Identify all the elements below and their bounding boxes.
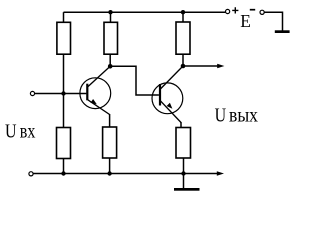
terminal E minus xyxy=(260,10,264,14)
svg-text:U: U xyxy=(5,121,17,143)
node V2 collector xyxy=(181,64,186,69)
wire column A: R1 to input node to R2 xyxy=(63,54,65,128)
ground bottom xyxy=(174,188,200,191)
wire column B: rail to R3 xyxy=(110,12,112,22)
node bottom rail/R2 xyxy=(61,171,65,175)
ground stub bottom xyxy=(183,174,185,189)
node bottom rail/R4 xyxy=(107,171,111,175)
transistor V2 xyxy=(152,66,183,123)
wire V1 emitter down to R4 xyxy=(109,114,111,127)
terminal E plus xyxy=(226,9,230,13)
resistor R2 xyxy=(57,128,71,159)
wire V2 emitter down to R6 xyxy=(180,122,182,128)
node V1 collector xyxy=(108,64,113,69)
wire input terminal to base of V1 xyxy=(35,93,87,95)
resistor R4 xyxy=(103,127,117,158)
node input/divider xyxy=(61,91,65,95)
output arrow top xyxy=(217,64,224,69)
wire coupling V1 collector to V2 base xyxy=(110,66,159,95)
wire column C: rail to R5 xyxy=(182,12,184,22)
wire column A: R2 to bottom rail xyxy=(63,159,65,174)
wire column A: rail to R1 xyxy=(63,12,65,22)
label minus sign xyxy=(250,9,255,11)
input terminal top xyxy=(30,91,34,95)
input terminal bottom xyxy=(29,172,33,176)
svg-text:U: U xyxy=(215,104,227,126)
resistor R5 xyxy=(176,22,190,54)
node junction rail/R3 xyxy=(108,10,112,14)
wire minus terminal to ground xyxy=(264,12,282,30)
resistor R1 xyxy=(57,22,71,54)
wire bottom ground rail xyxy=(33,173,218,175)
node bottom rail/R6/ground xyxy=(181,171,185,175)
svg-text:вых: вых xyxy=(229,104,258,126)
svg-text:E: E xyxy=(240,11,251,31)
wire top supply rail xyxy=(64,11,226,13)
resistor R3 xyxy=(104,22,118,54)
label plus sign xyxy=(232,7,238,13)
resistor R6 xyxy=(176,128,191,159)
transistor V1 xyxy=(80,66,111,114)
ground top right xyxy=(275,30,290,33)
output arrow bottom xyxy=(217,171,224,176)
svg-text:вх: вх xyxy=(20,121,36,143)
node junction rail/R5 xyxy=(181,10,185,14)
wire R6 to bottom rail xyxy=(183,158,185,174)
wire column C: R5 to collector node xyxy=(182,54,184,66)
wire R4 to bottom rail xyxy=(109,158,111,174)
wire output top line xyxy=(183,65,219,67)
wire column B: R3 to collector node xyxy=(109,54,111,66)
